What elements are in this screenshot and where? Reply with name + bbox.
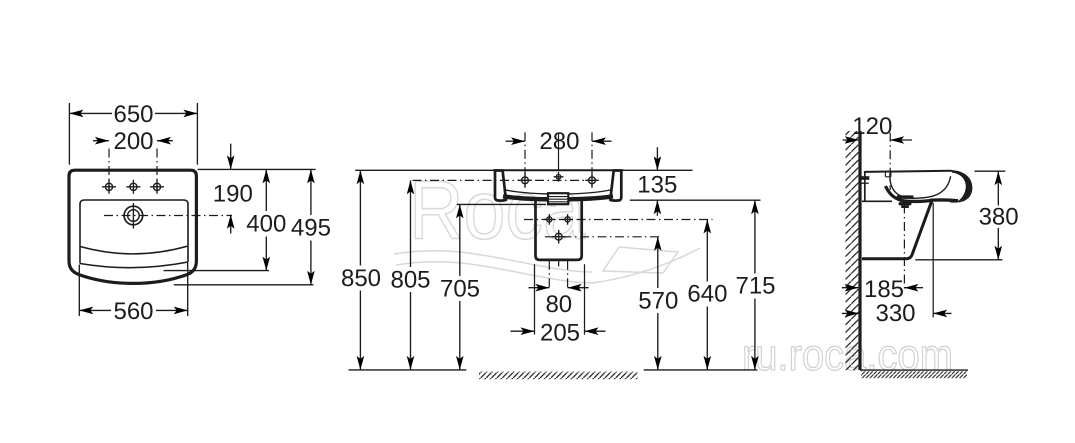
svg-text:120: 120 xyxy=(852,113,892,140)
centerline hole C horizontal xyxy=(545,236,663,238)
centerline tap hole left xyxy=(108,149,110,195)
dim 715 xyxy=(735,200,775,370)
dim 400 xyxy=(246,169,286,270)
drain trap tail xyxy=(901,205,909,208)
tap axis centerline xyxy=(889,133,891,190)
dim 650 extension lines xyxy=(69,103,197,165)
svg-text:205: 205 xyxy=(540,320,580,347)
dim 640 xyxy=(687,220,727,370)
svg-text:80: 80 xyxy=(545,291,572,318)
dim 205 xyxy=(511,320,606,347)
svg-text:330: 330 xyxy=(875,300,915,327)
wall hatch xyxy=(846,131,859,370)
dim 205 extension lines xyxy=(535,264,585,334)
bowl underside band xyxy=(503,196,613,199)
centerline mounting hole right vertical xyxy=(591,132,593,188)
centerline holes AB horizontal xyxy=(524,219,713,221)
ground line left xyxy=(349,369,467,371)
basin apron bottom arc xyxy=(80,262,188,268)
tap hole section xyxy=(885,172,891,177)
watermark Roca wordmark xyxy=(409,164,586,257)
mounting bracket xyxy=(861,176,869,180)
basin outer outline xyxy=(69,170,196,283)
dim 570 xyxy=(638,237,678,370)
dim 805 xyxy=(390,180,430,370)
bowl inner profile xyxy=(890,172,951,198)
dim 330 xyxy=(842,300,952,327)
svg-text:495: 495 xyxy=(291,215,331,242)
svg-text:190: 190 xyxy=(213,180,253,207)
drain hole xyxy=(124,203,143,229)
svg-text:135: 135 xyxy=(637,171,677,198)
centerline mounting holes horizontal xyxy=(413,179,599,181)
svg-text:280: 280 xyxy=(539,128,579,155)
leader 380 bottom xyxy=(915,259,1002,261)
leader line 495 xyxy=(174,284,314,286)
small center hole xyxy=(554,172,564,182)
centerline hole C vertical xyxy=(558,261,560,267)
center axis line xyxy=(558,133,560,170)
top reference line xyxy=(198,168,316,170)
fixture top edge xyxy=(865,171,951,172)
tap hole center xyxy=(126,180,140,194)
dim 120 xyxy=(843,113,912,144)
left rim post xyxy=(495,171,506,201)
dim 560 extension lines xyxy=(79,263,187,317)
bowl underside xyxy=(886,186,959,201)
dim 705 xyxy=(440,204,480,370)
right rim post xyxy=(610,171,621,201)
svg-text:715: 715 xyxy=(735,273,775,300)
ground hatch middle xyxy=(479,372,638,380)
drain axis centerline xyxy=(903,205,905,292)
dim 185 xyxy=(842,276,923,303)
rim bottom ref line xyxy=(630,199,761,201)
front extension line xyxy=(932,203,934,318)
dim 495 xyxy=(291,169,331,284)
top ref line right xyxy=(623,169,693,171)
centerline mounting hole left vertical xyxy=(524,132,526,188)
svg-text:705: 705 xyxy=(440,276,480,303)
pedestal bottom and front diagonal xyxy=(862,199,933,259)
svg-text:850: 850 xyxy=(341,265,381,292)
dim 135 xyxy=(637,147,677,216)
top ref line left xyxy=(355,169,493,171)
drain shroud box xyxy=(536,199,582,260)
basin apron sides xyxy=(80,246,188,264)
svg-text:805: 805 xyxy=(390,267,430,294)
svg-text:650: 650 xyxy=(113,101,153,128)
dim 280 xyxy=(506,128,612,155)
shroud hole B xyxy=(562,214,573,225)
dim 200 xyxy=(93,128,173,155)
leader 380 top xyxy=(975,170,1006,172)
centerline hole B vertical xyxy=(567,261,569,291)
back ledge line xyxy=(862,200,892,202)
wall line xyxy=(858,131,861,370)
basin bowl bottom arc xyxy=(80,246,188,254)
leader line 400 xyxy=(164,270,270,272)
fixture top edge xyxy=(494,169,623,171)
watermark swoosh xyxy=(394,247,700,283)
drain slot xyxy=(548,193,568,204)
centerline hole A vertical xyxy=(548,261,550,291)
dim 80 xyxy=(529,284,589,318)
svg-text:570: 570 xyxy=(638,288,678,315)
tap hole right xyxy=(150,180,164,194)
bowl inner curve xyxy=(504,190,613,195)
dim 380 xyxy=(979,171,1019,260)
centerline tap hole right xyxy=(156,149,158,195)
shroud hole A xyxy=(544,214,555,225)
leader line 705 xyxy=(457,203,546,205)
dim 850 xyxy=(341,170,381,370)
dim 650 xyxy=(69,101,197,128)
svg-text:200: 200 xyxy=(113,128,153,155)
mounting hole right xyxy=(585,174,599,188)
ground line right xyxy=(644,369,758,371)
dim 560 xyxy=(79,298,187,325)
svg-text:400: 400 xyxy=(246,211,286,238)
ground line xyxy=(860,369,968,371)
basin inner rim xyxy=(80,200,188,247)
fixture back edge xyxy=(864,172,866,201)
svg-text:380: 380 xyxy=(979,204,1019,231)
tap hole left xyxy=(102,180,116,194)
ground hatch xyxy=(861,371,967,378)
svg-text:185: 185 xyxy=(864,276,904,303)
drain trap flange xyxy=(897,195,914,199)
svg-text:640: 640 xyxy=(687,281,727,308)
svg-text:560: 560 xyxy=(113,298,153,325)
dim 190 xyxy=(213,144,253,234)
front rim roll crescent xyxy=(952,171,972,201)
drain trap nut xyxy=(899,202,912,205)
shroud hole C xyxy=(552,230,566,244)
front rim roll outline xyxy=(951,171,972,202)
centerline through drain xyxy=(104,215,232,217)
mounting hole left xyxy=(518,174,532,188)
